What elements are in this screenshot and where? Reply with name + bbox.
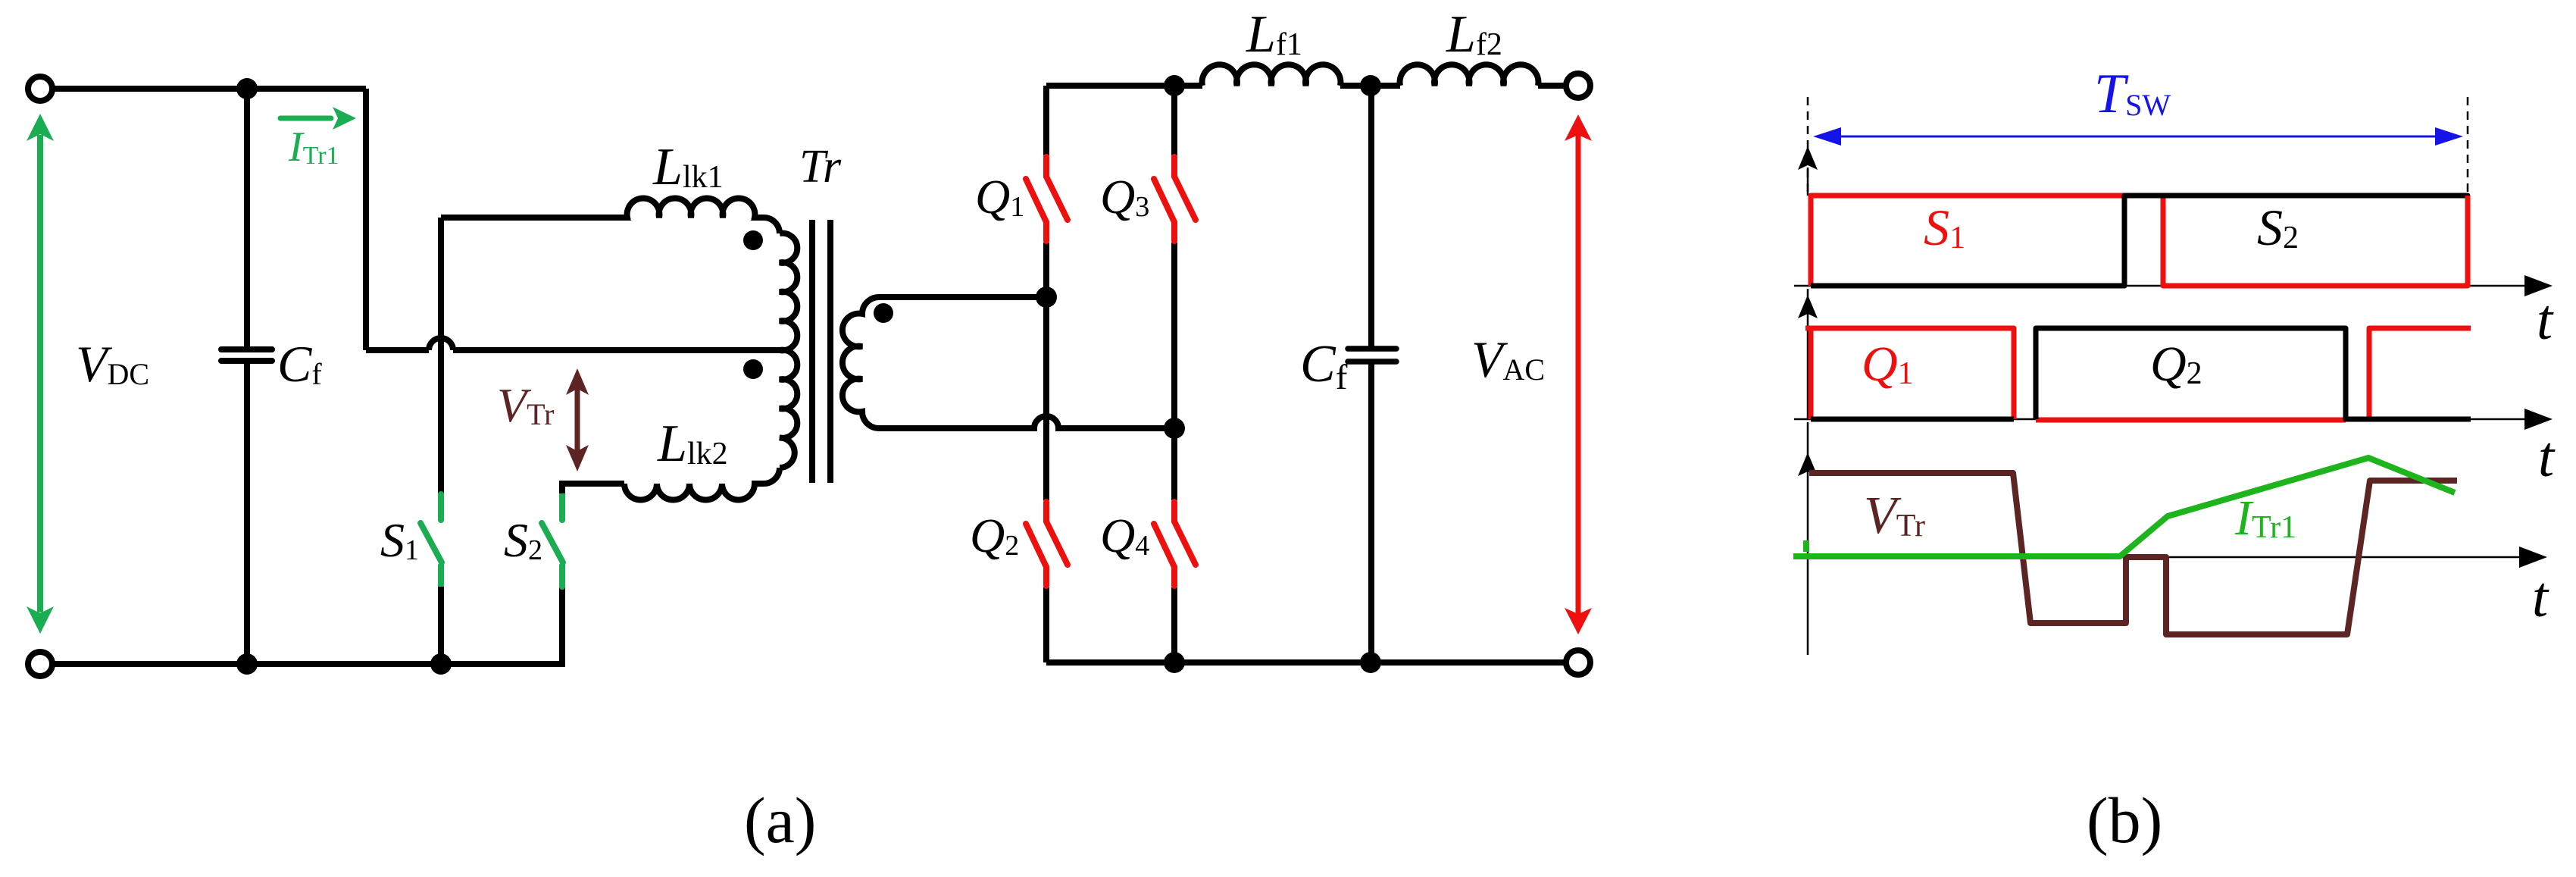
node secondary top to Q1Q2 mid — [1036, 287, 1057, 308]
dashed marker right — [2467, 97, 2469, 196]
svg-text:t: t — [2532, 565, 2549, 629]
terminal bottom-right — [1566, 650, 1590, 675]
capacitor Cf output — [1368, 86, 1374, 346]
wire S2 top corner to Llk2 — [562, 484, 624, 493]
arrow VDC — [37, 135, 43, 612]
wire input top rail — [53, 86, 366, 92]
svg-text:(b): (b) — [2087, 784, 2162, 857]
transformer secondary winding — [843, 297, 879, 428]
waveform Q1 red — [1805, 328, 2471, 420]
switch S1 — [420, 494, 442, 587]
waveform S2 black — [1811, 196, 2468, 286]
node bottom S1 — [430, 653, 452, 675]
waveform Q2 black — [1811, 328, 2471, 419]
axis Q vertical — [1807, 289, 1809, 419]
wire center tap — [453, 347, 780, 353]
arrow VTr — [575, 388, 580, 452]
node input top junction — [236, 78, 258, 99]
terminal top-right — [1566, 74, 1590, 98]
node bottom Q4 — [1164, 652, 1185, 673]
axis V vertical — [1807, 422, 1809, 655]
svg-text:Tr: Tr — [799, 141, 842, 193]
wire secondary bottom with hop — [879, 416, 1174, 428]
waveform VTr — [1809, 473, 2457, 634]
waveform S1 red — [1811, 196, 2468, 286]
arrow VAC — [1576, 135, 1581, 614]
arrow TSW — [1837, 136, 2439, 138]
wire Q1Q2 column — [1043, 86, 1049, 662]
axis S vertical — [1807, 168, 1809, 196]
capacitor Cf input — [244, 89, 250, 347]
node bottom Cf — [236, 653, 258, 675]
waveform S1 right edge red — [2465, 196, 2471, 286]
axis V horizontal — [1794, 556, 2525, 559]
terminal top-left — [28, 77, 52, 101]
wire input bottom rail — [53, 587, 562, 664]
wire S1 column upper — [438, 218, 444, 493]
waveform ITr1 — [1793, 458, 2455, 556]
switch Q4 — [1154, 502, 1196, 586]
wire Q3Q4 column — [1171, 86, 1177, 662]
switch Q1 — [1026, 157, 1068, 241]
node secondary bottom to Q3Q4 mid — [1164, 418, 1185, 439]
svg-text:t: t — [2537, 288, 2554, 352]
dot secondary — [874, 303, 893, 323]
wire S1 column lower — [438, 587, 444, 664]
switch S2 — [542, 494, 563, 587]
svg-text:(a): (a) — [744, 784, 816, 857]
wire secondary top — [879, 294, 1046, 300]
wire hop over S1 column — [429, 338, 453, 350]
inductor Lf2 — [1400, 64, 1539, 86]
node rail Cf top — [1360, 75, 1381, 96]
terminal bottom-left — [28, 652, 52, 676]
dashed marker left — [1807, 97, 1809, 196]
node bottom Cf output — [1360, 652, 1381, 673]
inductor Lf1 — [1202, 64, 1341, 86]
switch Q3 — [1154, 157, 1196, 241]
axis Q horizontal — [1794, 418, 2531, 421]
dot primary upper — [743, 230, 763, 250]
inductor Llk2 — [624, 468, 780, 500]
dot primary lower — [743, 359, 763, 379]
wire output top rail — [1046, 83, 1566, 89]
arrow ITr1 — [280, 116, 331, 121]
wire output bottom rail — [1046, 659, 1566, 666]
transformer primary winding lower — [780, 350, 797, 468]
node rail Q3 top — [1164, 75, 1185, 96]
svg-text:t: t — [2538, 425, 2556, 489]
transformer primary winding upper — [780, 233, 797, 351]
inductor Llk1 — [441, 198, 780, 233]
axis S horizontal — [1794, 285, 2531, 287]
transformer core — [812, 220, 830, 483]
switch Q2 — [1026, 502, 1068, 586]
wire descender to center tap — [366, 89, 429, 350]
